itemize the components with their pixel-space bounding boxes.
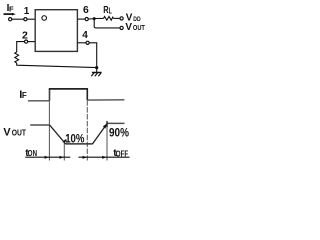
svg-text:F: F xyxy=(22,91,27,100)
pin 6 terminal xyxy=(85,18,88,21)
measure line tON xyxy=(25,156,70,158)
VOUT waveform high left xyxy=(30,124,50,126)
label VDD xyxy=(126,13,141,24)
wire junction down to VOUT xyxy=(94,19,120,28)
wire pin4 to ground xyxy=(89,43,96,68)
arrow 90% point xyxy=(103,124,107,129)
pin 1 terminal xyxy=(24,18,27,21)
IF waveform low right xyxy=(87,99,124,101)
label VOUT xyxy=(125,22,145,33)
svg-text:L: L xyxy=(109,6,112,15)
wire junction to RL xyxy=(94,17,103,19)
reference line tOFF start xyxy=(86,100,88,160)
label VOUT (waveform) xyxy=(3,126,26,138)
svg-text:OUT: OUT xyxy=(133,25,146,32)
IC pin1 indicator dot xyxy=(42,16,47,21)
resistor RL xyxy=(104,17,114,21)
IF waveform high xyxy=(49,88,88,90)
svg-text:OUT: OUT xyxy=(12,128,26,137)
label tON xyxy=(25,148,37,159)
arrow IF direction xyxy=(4,13,16,16)
reference line 10% point xyxy=(63,140,65,161)
wire resistor bottom xyxy=(17,63,97,68)
wire pin2 left and down xyxy=(17,42,25,52)
svg-text:ON: ON xyxy=(28,148,37,158)
wire pin6 to junction xyxy=(88,18,96,20)
svg-text:V: V xyxy=(125,22,132,33)
resistor R (LED series) xyxy=(15,52,19,63)
svg-text:90%: 90% xyxy=(109,127,129,139)
wire pin2 to IC xyxy=(28,41,35,43)
reference line tON start xyxy=(48,101,50,161)
wire junction to ground xyxy=(96,68,98,73)
label tOFF xyxy=(113,148,128,159)
arrowhead tON left xyxy=(45,156,49,159)
wire IC to pin6 xyxy=(77,18,85,20)
IF waveform low left xyxy=(28,100,49,102)
terminal input left xyxy=(9,18,12,21)
svg-text:F: F xyxy=(9,4,14,13)
svg-text:4: 4 xyxy=(82,30,88,41)
arrow 10% point xyxy=(62,139,66,143)
arrowhead tON right xyxy=(60,156,64,159)
svg-text:1: 1 xyxy=(24,6,30,17)
IF waveform falling edge xyxy=(86,89,88,100)
svg-text:DD: DD xyxy=(133,16,141,23)
measure line tOFF xyxy=(79,156,130,158)
svg-text:10%: 10% xyxy=(65,133,84,145)
label IF (input current) xyxy=(7,3,14,14)
wire RL to VDD terminal xyxy=(114,17,120,19)
arrowhead tOFF left xyxy=(83,156,87,159)
wire pin1 to IC xyxy=(27,18,35,20)
junction node ground xyxy=(95,66,98,69)
svg-text:6: 6 xyxy=(83,5,89,16)
label IF (waveform) xyxy=(19,89,27,101)
pin 4 terminal xyxy=(86,41,89,44)
arrowhead tOFF right xyxy=(102,156,106,159)
ground xyxy=(91,73,101,77)
tick 90% point xyxy=(106,121,108,127)
IF waveform rising edge xyxy=(49,89,51,101)
VOUT waveform falling slope xyxy=(50,125,66,144)
VOUT waveform high right xyxy=(107,122,125,124)
resistor RL label xyxy=(103,5,112,16)
svg-text:OFF: OFF xyxy=(116,148,128,158)
wire input to pin1 xyxy=(12,18,24,20)
svg-text:V: V xyxy=(3,126,11,138)
IC U1 body xyxy=(35,10,77,52)
terminal VDD xyxy=(120,17,123,20)
pin 2 terminal xyxy=(25,40,28,43)
VOUT waveform low xyxy=(66,143,93,145)
VOUT waveform rising slope xyxy=(93,123,108,143)
wire IC to pin4 xyxy=(77,42,86,44)
junction node VO xyxy=(93,17,96,20)
reference line 90% point xyxy=(106,122,108,161)
terminal VOUT xyxy=(120,26,123,29)
